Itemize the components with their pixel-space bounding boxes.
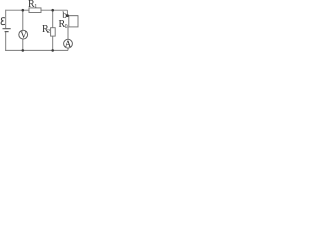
svg-text:2: 2: [47, 29, 50, 35]
svg-text:1: 1: [34, 4, 37, 10]
svg-text:V: V: [20, 30, 27, 40]
svg-text:0: 0: [65, 24, 68, 30]
svg-text:b: b: [62, 11, 67, 21]
svg-text:A: A: [65, 39, 72, 49]
